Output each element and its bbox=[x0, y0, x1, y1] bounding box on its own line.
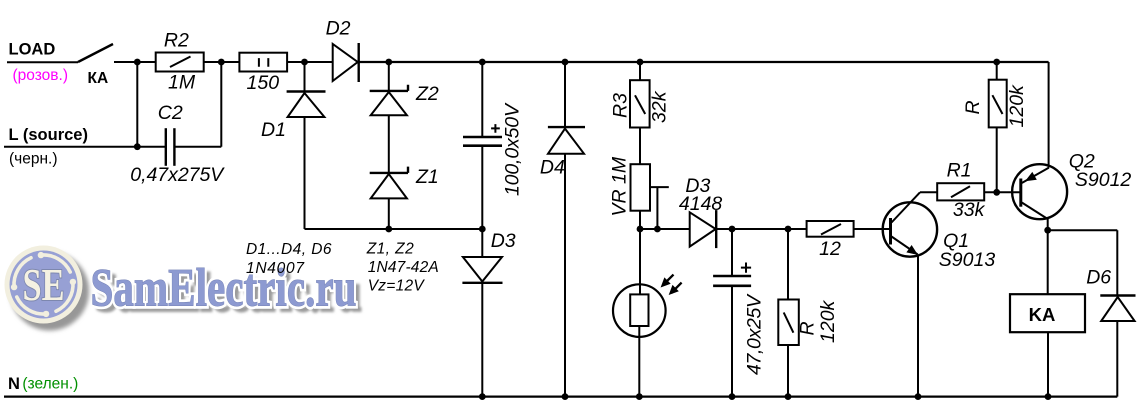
node junction R120k mid top bbox=[785, 226, 792, 233]
node junction N-LDR bbox=[636, 393, 643, 400]
svg-text:32k: 32k bbox=[649, 90, 671, 123]
wire R3 to VR bbox=[639, 128, 641, 165]
wire C1 bottom to connector node bbox=[481, 146, 483, 257]
transistor Q2 collector lead bbox=[1022, 203, 1048, 220]
node junction N-C2el bbox=[729, 393, 736, 400]
wire Q2 collector down bbox=[1047, 218, 1049, 230]
node junction Z bottom bbox=[385, 226, 392, 233]
wire fuse to D2 bbox=[287, 61, 333, 63]
capacitor C2el 47,0x25V bbox=[713, 263, 751, 286]
resistor R 120k top-right bbox=[989, 80, 1007, 128]
resistor R2 bbox=[156, 53, 204, 72]
svg-text:D1...D4, D6: D1...D4, D6 bbox=[246, 241, 332, 258]
svg-text:D6: D6 bbox=[1086, 267, 1111, 289]
svg-text:S9013: S9013 bbox=[939, 249, 996, 271]
wire Z column from rail bbox=[388, 62, 390, 91]
wire C2 riser to top rail bbox=[220, 62, 222, 147]
node junction C1 bottom connector bbox=[479, 226, 486, 233]
svg-text:SamElectric.ru: SamElectric.ru bbox=[91, 258, 357, 318]
wire R2 to fuse bbox=[204, 61, 240, 63]
svg-text:Z2: Z2 bbox=[415, 83, 439, 105]
resistor R1 bbox=[937, 183, 984, 200]
svg-text:LOAD: LOAD bbox=[9, 41, 56, 59]
svg-text:D2: D2 bbox=[326, 18, 351, 40]
svg-text:N: N bbox=[8, 375, 20, 393]
svg-text:4148: 4148 bbox=[679, 193, 723, 215]
node junction D1 top bbox=[301, 59, 308, 66]
node junction relay bottom bbox=[1045, 393, 1052, 400]
wire connector D1-Z-C1 bottoms bbox=[305, 228, 483, 230]
zener Z2 bbox=[370, 85, 408, 116]
wire node to LDR bbox=[639, 229, 641, 294]
photoresistor LDR circle bbox=[613, 284, 666, 337]
wire N rail bbox=[4, 395, 1117, 397]
wire Q1 collector to R1 bbox=[920, 191, 937, 193]
wire D3 to N rail bbox=[481, 283, 483, 397]
resistor R12 bbox=[807, 221, 854, 237]
photoresistor light arrow 2 bbox=[669, 283, 682, 295]
wire switch shunt left vertical bbox=[136, 62, 138, 147]
svg-text:КА: КА bbox=[88, 70, 109, 87]
svg-text:(черн.): (черн.) bbox=[9, 150, 58, 167]
svg-text:D4: D4 bbox=[540, 157, 565, 179]
potentiometer VR bbox=[631, 164, 669, 229]
capacitor C1 100,0x50V bbox=[463, 124, 502, 146]
transistor Q2 emitter lead bbox=[1022, 168, 1049, 183]
photoresistor LDR body bbox=[630, 294, 648, 326]
wire Z2 to Z1 bbox=[388, 115, 390, 173]
svg-text:KA: KA bbox=[1029, 304, 1056, 325]
wire Q2 collector to D6 branch bbox=[1048, 229, 1118, 231]
wire top rail D2 to corner bbox=[359, 61, 1049, 63]
watermark logo ring bbox=[5, 246, 83, 324]
svg-text:120k: 120k bbox=[1006, 84, 1028, 128]
svg-text:R: R bbox=[962, 100, 984, 114]
watermark logo swirls bbox=[14, 255, 73, 314]
wire C2 right to riser bbox=[174, 146, 221, 148]
wire D1 down to connector bbox=[304, 117, 306, 229]
wire D6 column upper bbox=[1116, 230, 1118, 295]
wire C2el column bbox=[731, 229, 733, 276]
diode D6 bbox=[1100, 296, 1135, 322]
switch KA blade bbox=[78, 44, 113, 62]
svg-text:(зелен.): (зелен.) bbox=[22, 375, 78, 392]
node junction at x137 top rail bbox=[134, 59, 141, 66]
watermark logo disc bbox=[10, 251, 78, 319]
wire Z1 to connector bbox=[388, 198, 390, 229]
wire C1 column from rail bbox=[481, 62, 483, 137]
wire R1 to Q2 base bbox=[984, 191, 1019, 193]
node junction R120k top bbox=[993, 59, 1000, 66]
svg-text:33k: 33k bbox=[953, 199, 986, 221]
wire D4 to N rail bbox=[564, 154, 566, 397]
transistor Q1 collector lead bbox=[892, 192, 921, 222]
wire D6 to N rail bbox=[1116, 321, 1118, 397]
fuse FU 150 bbox=[239, 53, 287, 72]
node junction D4 top bbox=[562, 59, 569, 66]
svg-text:1N4007: 1N4007 bbox=[246, 260, 305, 277]
transistor Q2 circle bbox=[1012, 164, 1067, 219]
photoresistor light arrow 1 bbox=[661, 275, 674, 288]
node junction Q2 collector bbox=[1044, 227, 1051, 234]
svg-text:D1: D1 bbox=[261, 119, 286, 141]
svg-text:0,47x275V: 0,47x275V bbox=[130, 164, 225, 186]
svg-text:R1: R1 bbox=[947, 160, 972, 182]
node junction VR bottom bbox=[637, 226, 644, 233]
wire C2el to N rail bbox=[731, 286, 733, 397]
svg-text:Z1: Z1 bbox=[415, 166, 439, 188]
wire D1 column from rail bbox=[304, 62, 306, 92]
wire D4 column from rail bbox=[564, 62, 566, 127]
wire R120k mid column bbox=[787, 229, 789, 300]
diode D1 bbox=[287, 92, 326, 118]
wire switch to R2 bbox=[114, 61, 156, 63]
wire node line right part bbox=[716, 228, 806, 230]
wire Q1 emitter to N rail bbox=[917, 255, 919, 397]
svg-text:L (source): L (source) bbox=[9, 126, 88, 144]
resistor R 120k mid bbox=[778, 300, 799, 346]
wire top rail corner down to Q2 emitter bbox=[1048, 62, 1050, 168]
wire R3 column from rail bbox=[639, 62, 641, 80]
svg-text:120k: 120k bbox=[817, 299, 839, 343]
svg-text:1N47-42A: 1N47-42A bbox=[368, 259, 439, 276]
wire LDR to N rail bbox=[638, 326, 640, 397]
svg-text:100,0x50V: 100,0x50V bbox=[502, 102, 524, 196]
node junction N-R120k mid bbox=[785, 393, 792, 400]
svg-text:150: 150 bbox=[247, 72, 280, 94]
transistor Q2 base bar bbox=[1019, 179, 1022, 207]
node junction C1 top bbox=[479, 59, 486, 66]
wire node line left part bbox=[640, 228, 690, 230]
relay coil KA bbox=[1010, 294, 1085, 332]
wire Q2 collector to relay bbox=[1047, 230, 1049, 294]
svg-text:47,0x25V: 47,0x25V bbox=[744, 293, 766, 375]
transistor Q1 emitter lead bbox=[892, 237, 919, 256]
svg-text:D3: D3 bbox=[491, 230, 516, 252]
watermark logo shadow bbox=[10, 252, 89, 331]
wire LOAD lead bbox=[7, 61, 78, 63]
diode D4 bbox=[548, 127, 585, 154]
svg-text:12: 12 bbox=[819, 238, 841, 260]
diode D3 4148 bbox=[690, 210, 717, 248]
svg-text:R: R bbox=[797, 321, 819, 335]
resistor R3 bbox=[630, 80, 650, 127]
svg-text:R2: R2 bbox=[164, 29, 189, 51]
svg-text:Vz=12V: Vz=12V bbox=[368, 277, 426, 294]
node junction C2el top bbox=[729, 226, 736, 233]
node junction R1-R120k-Q2base bbox=[993, 189, 1000, 196]
diode D3 lower bbox=[462, 257, 502, 283]
node junction at x221 top rail bbox=[218, 59, 225, 66]
watermark SamElectric.ru bbox=[5, 246, 362, 331]
node junction L-C2 bbox=[134, 143, 141, 150]
node junction N-D4 bbox=[562, 393, 569, 400]
svg-text:VR 1M: VR 1M bbox=[609, 156, 631, 216]
svg-text:C2: C2 bbox=[158, 102, 183, 124]
wire L source lead bbox=[4, 146, 166, 148]
svg-text:SE: SE bbox=[23, 260, 65, 310]
wire VR bottom to node bbox=[639, 211, 641, 229]
node junction Z top bbox=[385, 59, 392, 66]
transistor Q1 base bar bbox=[889, 218, 892, 245]
svg-text:R3: R3 bbox=[610, 93, 632, 118]
svg-text:Z1, Z2: Z1, Z2 bbox=[366, 241, 414, 258]
capacitor C2 bbox=[166, 128, 175, 166]
wire R120k top-right column from rail bbox=[996, 62, 998, 80]
node junction N-D3 bbox=[479, 393, 486, 400]
svg-text:1M: 1M bbox=[168, 72, 196, 94]
wire R120k mid to N rail bbox=[787, 345, 789, 397]
zener Z1 bbox=[370, 167, 408, 199]
transistor Q1 circle bbox=[883, 202, 937, 256]
node junction VR wiper bbox=[654, 226, 661, 233]
wire relay to N rail bbox=[1047, 332, 1049, 396]
svg-text:(розов.): (розов.) bbox=[13, 67, 68, 84]
node junction N-Q1 emitter bbox=[915, 393, 922, 400]
node junction R3 top bbox=[637, 59, 644, 66]
wire R120k top-right to node bbox=[996, 127, 998, 192]
svg-text:S9012: S9012 bbox=[1075, 169, 1132, 191]
diode D2 bbox=[333, 43, 359, 82]
wire R12 to Q1 base bbox=[854, 228, 891, 230]
